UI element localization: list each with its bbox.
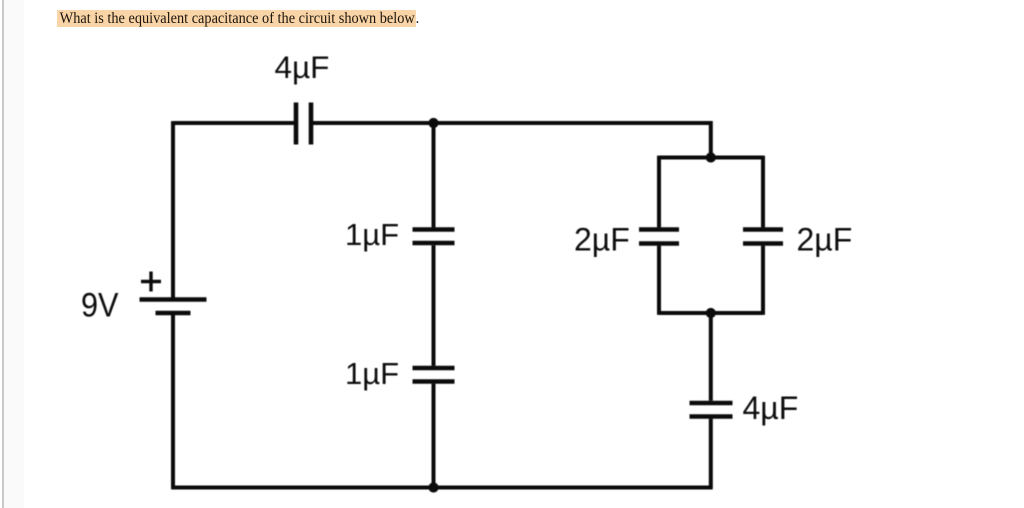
wire top rail right segment + right rail drop bbox=[313, 123, 711, 158]
capacitor C2 1uF upper plates bbox=[413, 227, 455, 232]
wire box right side upper bbox=[761, 156, 765, 228]
battery B1 short plate bbox=[156, 311, 191, 316]
svg-text:1µF: 1µF bbox=[345, 356, 399, 391]
wire box right side lower bbox=[761, 246, 765, 315]
capacitor C4 2uF left plates bbox=[639, 227, 679, 232]
left page edge line bbox=[2, 0, 4, 508]
wire right rail cap to bottom rail bbox=[709, 419, 713, 488]
node C box bottom junction bbox=[706, 308, 716, 318]
capacitor C6 4uF bottom plates bbox=[690, 401, 733, 406]
wire parallel box top bbox=[659, 156, 763, 160]
wire left rail upper bbox=[171, 121, 175, 297]
svg-text:4µF: 4µF bbox=[743, 390, 799, 426]
node D bottom middle junction bbox=[428, 482, 438, 492]
wire middle branch between caps bbox=[432, 245, 436, 366]
capacitor C3 1uF lower plates bbox=[413, 366, 455, 371]
svg-text:4µF: 4µF bbox=[275, 49, 330, 85]
node B box top junction bbox=[706, 152, 716, 162]
svg-text:2µF: 2µF bbox=[797, 222, 853, 258]
wire middle branch upper bbox=[432, 123, 436, 227]
wire top rail left segment bbox=[173, 121, 294, 125]
wire left rail lower bbox=[171, 315, 175, 488]
capacitor C5 2uF right plates bbox=[743, 227, 783, 232]
wire middle branch lower bbox=[432, 384, 436, 488]
capacitor C1 4uF top plates (vertical) bbox=[294, 103, 299, 145]
wire box left side upper bbox=[657, 156, 661, 228]
question text bbox=[57, 9, 419, 28]
wire box left side lower bbox=[657, 246, 661, 315]
svg-text:1µF: 1µF bbox=[345, 217, 399, 252]
battery B1 long plate bbox=[140, 297, 207, 302]
battery plus sign bbox=[141, 272, 161, 292]
svg-text:9V: 9V bbox=[81, 287, 119, 325]
wire right rail below bottom node to cap bbox=[709, 313, 713, 401]
wire parallel box bottom bbox=[659, 311, 763, 315]
svg-text:2µF: 2µF bbox=[574, 222, 630, 258]
wire bottom rail bbox=[171, 486, 713, 490]
node A top middle junction bbox=[428, 118, 438, 128]
